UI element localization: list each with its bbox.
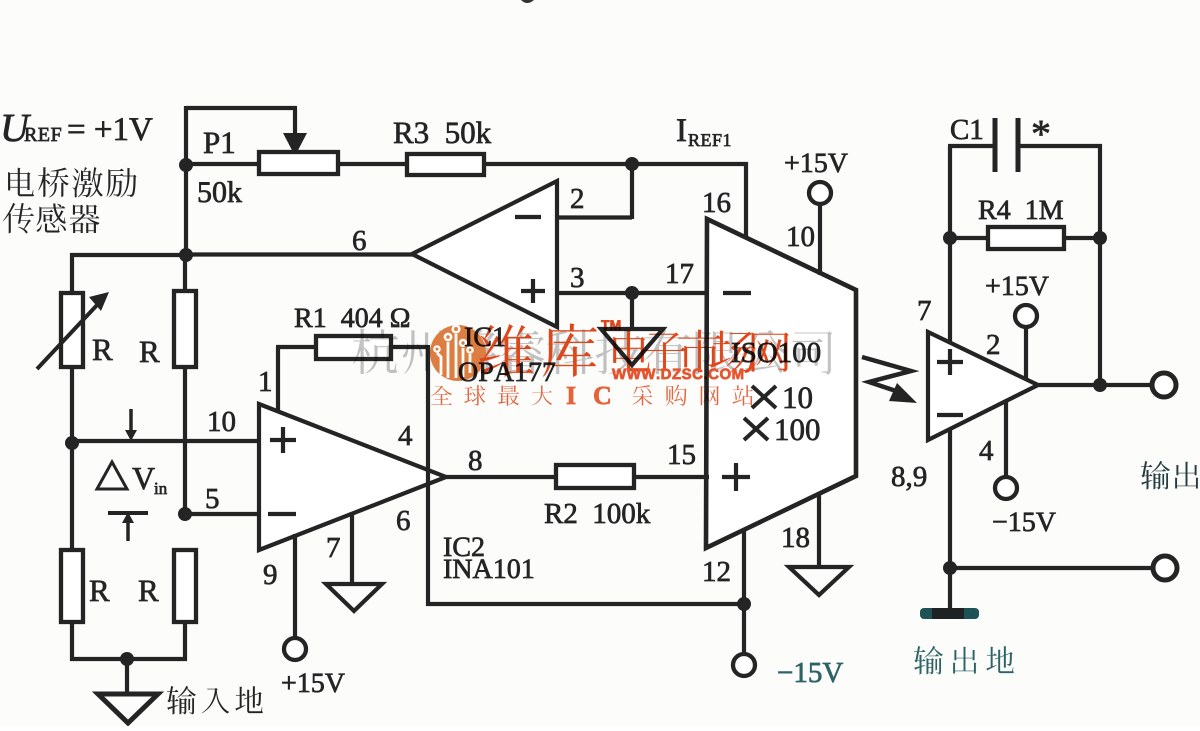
label 输出 xyxy=(1141,461,1170,490)
op-amp IC2 triangle xyxy=(259,404,446,550)
wire R1 left lead xyxy=(276,345,318,349)
label +15V (out) xyxy=(986,279,999,292)
wire IC2 pin1 up xyxy=(276,347,280,413)
label IC2 pin 4 xyxy=(399,426,412,445)
wire bridge left rail lower xyxy=(70,441,74,552)
variable resistor arrow xyxy=(37,304,98,369)
label 输入地 xyxy=(167,686,196,715)
label out pin 4 xyxy=(980,441,993,460)
label ISO100 pin 15 xyxy=(670,445,680,464)
wire feedback right vertical xyxy=(1098,144,1102,387)
node left bridge tap xyxy=(65,436,79,450)
label IC2 pin 10 xyxy=(210,412,220,431)
label gain x10 xyxy=(752,386,776,408)
wire IC1 pin2 out xyxy=(555,215,632,219)
terminal +15V ISO100 xyxy=(809,182,831,204)
label out pin 7 xyxy=(919,301,931,320)
wire R4 right lead xyxy=(1064,236,1100,240)
label 50k (P1) xyxy=(199,182,211,202)
node pot left junction xyxy=(179,158,193,172)
ground bar output (teal) xyxy=(920,608,979,619)
resistor R upper-right body xyxy=(174,291,196,367)
label IC1 pin 2 xyxy=(571,189,583,208)
wire R4 left lead xyxy=(950,236,990,240)
wire node to pin16 corner xyxy=(632,162,748,166)
wire C1 top right xyxy=(1018,144,1102,148)
op-amp output plus xyxy=(937,360,963,364)
label R (lower left) xyxy=(90,581,110,601)
node right bridge tap xyxy=(178,507,192,521)
wire out minus rail xyxy=(948,429,952,612)
label -15V (teal) xyxy=(778,672,791,673)
wire rail x186 top xyxy=(184,106,188,257)
ISO100 minus input xyxy=(723,291,751,295)
terminal -15V out xyxy=(995,477,1017,499)
label U_REF = +1V xyxy=(4,115,31,142)
wire lower right drop xyxy=(183,622,187,661)
wire output xyxy=(1036,383,1153,387)
op-amp IC1 minus input xyxy=(515,215,541,219)
label R2 100k xyxy=(545,504,563,523)
resistor R2 body xyxy=(556,465,634,488)
crop mark top xyxy=(521,0,534,3)
label ISO100 pin 10 xyxy=(789,227,799,246)
node bridge bottom junction xyxy=(120,652,134,666)
wire pin3 ground stub xyxy=(630,293,634,330)
terminal -15V ISO100 xyxy=(733,654,755,676)
watermark TM xyxy=(601,320,609,330)
label out pins 8 9 xyxy=(892,467,904,487)
op-amp IC2 minus input xyxy=(268,512,296,516)
terminal output upper xyxy=(1152,373,1176,397)
terminal output lower xyxy=(1153,556,1177,580)
label dVin xyxy=(97,462,127,489)
label R1 404 xyxy=(295,309,313,327)
wire R2 to ISO pin15 xyxy=(634,475,709,479)
resistor R3 body xyxy=(407,154,484,175)
wire R1 right lead xyxy=(391,345,428,349)
label C1 xyxy=(951,120,968,139)
isolation amp ISO100 body xyxy=(706,219,856,548)
label -15V (out) xyxy=(993,521,1006,522)
wire to input ground xyxy=(125,659,129,696)
label IC1 xyxy=(465,328,472,346)
label IC1 pin 3 xyxy=(571,268,583,287)
label IC2 pin 9 xyxy=(264,565,276,584)
terminal +15V out xyxy=(1015,305,1037,327)
wire pin12 to -15V xyxy=(742,604,746,655)
ground at IC1 pin3 xyxy=(601,329,663,365)
label +15V (ISO100) xyxy=(785,156,798,169)
label IC2 pin 5 xyxy=(207,489,219,508)
label R (var) xyxy=(93,340,113,360)
op-amp output triangle xyxy=(928,332,1038,440)
label I_REF1 xyxy=(677,119,686,141)
wire bottom feedback xyxy=(426,602,746,606)
wire bridge bottom xyxy=(70,657,187,661)
wire minus tap to IC2 pin5 xyxy=(185,512,261,516)
wire IC2 pin9 down xyxy=(293,534,297,638)
resistor R4 body xyxy=(988,227,1064,249)
wire pot wiper loop xyxy=(186,106,297,110)
wire IC1 pin3 to ISO pin17 xyxy=(555,291,709,295)
wire lower left drop xyxy=(70,622,74,661)
label IC1 pin 6 xyxy=(353,231,365,250)
variable resistor R body xyxy=(61,293,83,367)
label ISO100 pin 18 xyxy=(784,528,794,547)
label OPA177 xyxy=(459,362,477,381)
terminal +15V IC2 xyxy=(284,638,306,660)
ground input (bottom left) xyxy=(98,694,158,723)
label ISO100 pin 16 xyxy=(705,193,715,212)
op-amp output minus xyxy=(937,413,963,417)
wire bridge left rail mid xyxy=(70,367,74,445)
wire ISO100 pin12 xyxy=(742,530,746,606)
op-amp IC1 triangle xyxy=(412,181,557,327)
label R (upper right) xyxy=(140,342,160,362)
label INA101 xyxy=(444,560,451,578)
wire out pin2 xyxy=(1024,327,1028,379)
watermark gray company text xyxy=(353,328,832,374)
wire pot left lead xyxy=(186,162,261,166)
capacitor C1 xyxy=(993,118,998,172)
label R3 50k xyxy=(394,123,414,143)
label R (lower right) xyxy=(139,581,159,601)
ISO100 plus input xyxy=(722,475,750,479)
watermark 维库 xyxy=(479,324,532,377)
label 电桥激励 xyxy=(8,168,34,197)
wire pin16 drop xyxy=(744,162,748,240)
label IC2 xyxy=(444,538,451,556)
opto coupling arrow xyxy=(862,357,911,392)
label P1 xyxy=(204,133,219,153)
node R4 right junction xyxy=(1093,231,1107,245)
wire bridge left rail upper xyxy=(70,253,74,295)
label ISO100 pin 12 xyxy=(705,562,715,581)
watermark www.dzsc.com xyxy=(612,369,626,379)
wire out pin7 up xyxy=(948,146,952,343)
wire IC2 pin8 out xyxy=(444,475,558,479)
label 输出地 xyxy=(914,646,943,675)
wire R3 to node xyxy=(484,162,634,166)
watermark 电子市场网 xyxy=(613,331,650,372)
node pin12 junction xyxy=(737,597,751,611)
wire pot right lead xyxy=(338,162,409,166)
wire bridge right rail xyxy=(183,255,187,293)
label C1 star xyxy=(1033,121,1049,136)
resistor R lower-right body xyxy=(174,550,196,622)
resistor R lower-left body xyxy=(61,550,83,622)
wire plus tap to IC2 pin10 xyxy=(72,439,261,443)
op-amp IC2 plus input xyxy=(270,438,296,442)
label +15V (IC2) xyxy=(282,676,295,689)
node output ground junction xyxy=(943,561,957,575)
node output junction xyxy=(1093,378,1107,392)
label 传感器 xyxy=(3,203,34,234)
arrow down to wire xyxy=(129,409,133,432)
label ISO100 pin 17 xyxy=(668,264,678,283)
label IC2 pin 6 xyxy=(397,511,409,530)
potentiometer P1 body xyxy=(259,152,338,174)
wire out pin4 xyxy=(1004,400,1008,478)
wire IC1 pin6 to rail xyxy=(186,252,414,256)
pot wiper arrow xyxy=(283,133,307,156)
polarity mark xyxy=(108,511,148,515)
wire ISO100 pin18 xyxy=(817,494,821,568)
label out pin 2 xyxy=(987,335,999,354)
wire R1 to pin4 and pin6 down xyxy=(426,345,430,606)
wire to output terminal lower xyxy=(950,566,1154,570)
wire ISO100 pin10 xyxy=(818,204,822,275)
label gain x100 xyxy=(744,418,768,440)
node pin3 junction xyxy=(625,286,639,300)
label IC2 pin 1 xyxy=(261,372,271,391)
op-amp IC1 plus input xyxy=(521,289,545,293)
wire C1 top left xyxy=(948,144,995,148)
label R4 1M xyxy=(979,201,997,219)
resistor R1 body xyxy=(316,336,391,359)
watermark logo circle xyxy=(430,325,486,381)
label IC2 pin 8 xyxy=(469,451,481,471)
label IC2 pin 7 xyxy=(328,538,340,557)
ground at ISO100 pin18 xyxy=(789,567,849,595)
node R4 left junction xyxy=(943,231,957,245)
ground at IC2 pin7 xyxy=(326,584,382,611)
wire bridge top horizontal xyxy=(70,253,188,257)
node R3 output junction xyxy=(625,157,639,171)
watermark slogan xyxy=(431,386,452,405)
node bridge top junction xyxy=(179,248,193,262)
label ISO100 xyxy=(732,343,740,362)
wire IC2 pin7 down xyxy=(350,512,354,585)
